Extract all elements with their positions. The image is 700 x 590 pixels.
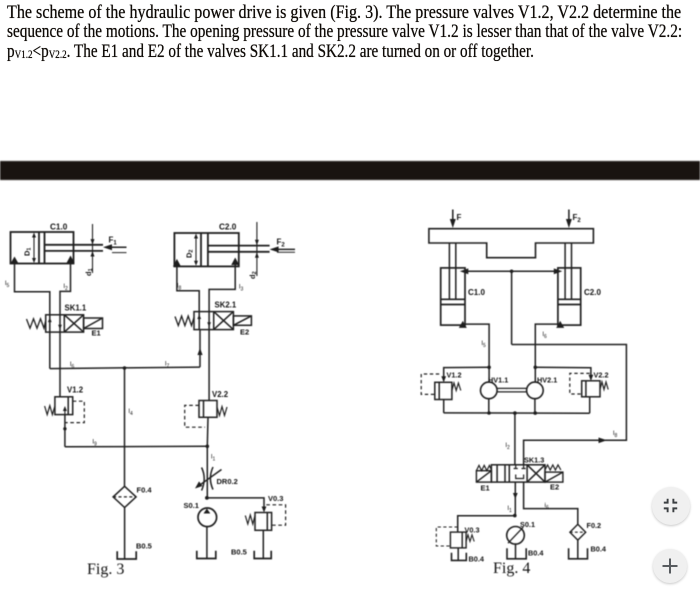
wire filter to tank [124, 508, 126, 559]
tank B0.5 filter [117, 551, 136, 559]
svg-text:l2: l2 [64, 283, 68, 292]
svg-text:S0.1: S0.1 [184, 501, 199, 510]
force arrow F2 [270, 246, 295, 252]
wire V0.3 to tank [262, 530, 264, 558]
wire manifold to SK1.3 [514, 413, 516, 465]
wire SK1.1 to V1.2 [59, 332, 61, 397]
node beam junction [510, 270, 514, 274]
svg-text:E1: E1 [92, 329, 101, 338]
wire junction to V0.3 fig4 [458, 516, 515, 532]
port arrow left C2.0 [173, 259, 181, 267]
wire C2.0 right port to SK2.1 [209, 265, 235, 312]
svg-text:HV1.1: HV1.1 [488, 376, 508, 385]
dimension d1 [91, 224, 95, 273]
solenoid E1 [84, 318, 103, 329]
throttle DR0.2 [195, 467, 222, 491]
flow arrow V1.2 [64, 409, 66, 415]
pilot V2.2 fig4 [570, 373, 590, 394]
wire V1.2 down [64, 415, 66, 447]
svg-text:d1: d1 [84, 268, 94, 276]
pilot V0.3 fig4 [436, 527, 457, 546]
cylinder C1.0 fig4 [441, 268, 465, 325]
filter F0.4 [113, 486, 136, 507]
svg-text:l7: l7 [165, 361, 169, 370]
dimension D2 [194, 234, 198, 266]
svg-text:S0.1: S0.1 [520, 520, 535, 529]
svg-text:V2.2: V2.2 [594, 371, 609, 380]
svg-text:d2: d2 [248, 271, 258, 279]
wire pump to tank [206, 527, 208, 559]
svg-text:l1: l1 [211, 454, 215, 463]
wire SK1.1 to manifold [49, 332, 51, 369]
svg-text:D1: D1 [23, 248, 33, 256]
wire SK2.1 to V2.2 [208, 330, 210, 401]
node HV2.1 top junction [534, 366, 538, 370]
solenoid E2 fig4 [545, 472, 563, 482]
force F left [450, 210, 456, 229]
spring SK1.3 right [545, 465, 561, 470]
wire pump to tank fig4 [515, 544, 517, 558]
svg-text:l8: l8 [613, 430, 617, 439]
wire V1.2 fig4 down [443, 400, 445, 413]
tank B0.4 pump [507, 548, 526, 559]
svg-text:V0.3: V0.3 [465, 526, 480, 535]
svg-text:l5: l5 [482, 340, 486, 349]
wire bottom manifold fig4 [444, 412, 590, 414]
node dots manifold [487, 411, 491, 415]
spring V2.2 [217, 407, 227, 416]
svg-text:DR0.2: DR0.2 [217, 477, 238, 486]
svg-text:F2: F2 [573, 213, 582, 224]
cylinder C2.0 [174, 233, 269, 266]
svg-text:V1.2: V1.2 [67, 386, 84, 395]
svg-text:HV2.1: HV2.1 [537, 376, 557, 385]
wire up-arrow to SK2.1 [199, 330, 201, 368]
svg-text:SK2.1: SK2.1 [215, 301, 237, 310]
wire center down [511, 271, 513, 344]
motor HV1.1 [481, 382, 498, 399]
wire manifold down to filter [124, 368, 126, 486]
pilot line V0.3 [266, 505, 285, 525]
svg-text:E2: E2 [550, 483, 559, 492]
svg-text:Fig. 4: Fig. 4 [493, 560, 530, 577]
cylinder C1.0 [11, 232, 104, 264]
wire C2.0 to HV2.1 [535, 324, 558, 382]
svg-text:C2.0: C2.0 [219, 223, 237, 232]
dimension D1 [32, 233, 36, 264]
svg-text:i6: i6 [545, 502, 549, 511]
piston rod right [565, 243, 571, 299]
svg-text:l6: l6 [543, 331, 547, 340]
spring V1.2 fig4 [452, 383, 461, 391]
port arrow right C1.0 [67, 256, 75, 264]
filter F0.2 [570, 524, 586, 540]
solenoid E1 fig4 [476, 471, 491, 482]
wire C1.0 left port to SK1.1 [15, 264, 50, 315]
valve V0.3 fig4 [450, 532, 466, 548]
valve V2.2 fig4 [582, 381, 600, 397]
svg-text:V2.2: V2.2 [212, 390, 229, 399]
solenoid E2 [233, 316, 251, 325]
wire SK1.3 to pump [514, 482, 516, 515]
node junction l4 [123, 366, 127, 370]
tank B0.4 filter [569, 548, 588, 559]
svg-text:F0.2: F0.2 [587, 521, 602, 530]
wire HV2.1 bottom [534, 399, 536, 413]
svg-text:V1.2: V1.2 [447, 371, 462, 380]
tank B0.5 pump [197, 551, 216, 559]
wire C1.0 right port to SK1.1 [60, 264, 71, 315]
svg-text:F: F [457, 213, 462, 222]
wire l9 [65, 445, 207, 448]
button fullscreen-exit [652, 487, 690, 525]
svg-text:l4: l4 [129, 408, 133, 417]
button plus [653, 549, 687, 583]
wire rod-side link [462, 270, 561, 272]
divider bar [0, 161, 700, 180]
wire V0.3 fig4 to tank [457, 548, 459, 560]
node junction pump fig4 [513, 514, 517, 518]
svg-text:Fig. 3: Fig. 3 [87, 561, 124, 578]
valve SK2.1 [194, 312, 233, 330]
svg-text:C1.0: C1.0 [50, 223, 68, 232]
port arrow C2.0 fig4 [556, 321, 564, 328]
svg-text:V0.3: V0.3 [268, 494, 283, 503]
svg-text:B0.4: B0.4 [469, 555, 485, 564]
svg-text:l8: l8 [177, 283, 181, 292]
tank V0.3 [254, 551, 271, 559]
force F2 right [566, 210, 572, 229]
wire C2.0 left port to SK2.1 [177, 266, 199, 311]
valve SK1.3 [491, 465, 545, 482]
svg-text:E2: E2 [240, 328, 249, 337]
svg-text:B0.5: B0.5 [231, 548, 247, 557]
svg-text:B0.5: B0.5 [136, 542, 152, 551]
wire filter to tank fig4 [577, 540, 579, 558]
svg-text:D2: D2 [185, 250, 195, 258]
svg-text:l9: l9 [93, 439, 97, 448]
pilot line V2.2 [185, 405, 205, 427]
svg-text:B0.4: B0.4 [528, 549, 544, 558]
wire to V2.2 fig4 [535, 367, 591, 379]
svg-text:C2.0: C2.0 [584, 288, 601, 297]
spring V1.2 [45, 406, 55, 415]
wire to V1.2 fig4 [444, 367, 489, 381]
node junction pump [205, 496, 209, 500]
spring SK1.1 [27, 319, 46, 328]
svg-text:l6: l6 [70, 361, 74, 370]
force arrow F1 [103, 244, 127, 252]
press beam [429, 229, 594, 258]
svg-text:B0.4: B0.4 [591, 545, 607, 554]
wire right loop [512, 345, 627, 465]
svg-text:E1: E1 [481, 484, 490, 493]
node junction l9/V2.2 [206, 445, 210, 449]
spring V0.3 fig4 [466, 535, 474, 542]
port arrow left C1.0 [11, 257, 19, 264]
svg-text:F0.4: F0.4 [137, 486, 153, 495]
spring SK2.1 [175, 316, 194, 326]
svg-text:C1.0: C1.0 [468, 288, 485, 297]
shaft link [497, 388, 526, 392]
port arrow right C2.0 [231, 258, 239, 266]
wire SK1.3 to filter [524, 482, 578, 524]
node dot below V1.2 [63, 427, 66, 430]
piston rod left [449, 243, 455, 299]
motor HV2.1 [527, 382, 544, 399]
svg-text:l2: l2 [506, 442, 510, 451]
wire V2.2 down to pump [206, 417, 209, 498]
wire HV1.1 bottom [488, 399, 490, 413]
valve V0.3 [255, 513, 272, 531]
valve V2.2 [199, 401, 217, 418]
valve SK1.1 [46, 315, 84, 332]
svg-text:F1: F1 [109, 236, 118, 247]
node HV1.1 top junction [487, 366, 491, 370]
pilot V1.2 fig4 [421, 374, 439, 394]
spring V2.2 fig4 [600, 382, 608, 390]
pilot line V1.2 [65, 401, 84, 422]
tank B0.4 V0.3 [452, 553, 467, 561]
valve V1.2 fig4 [435, 382, 452, 399]
svg-text:l5: l5 [5, 280, 9, 289]
cylinder C2.0 fig4 [558, 268, 581, 325]
svg-text:l1: l1 [508, 505, 512, 514]
pump S0.1 [198, 508, 217, 527]
spring SK1.3 left [476, 465, 491, 470]
svg-text:SK1.1: SK1.1 [65, 304, 87, 313]
port arrow C1.0 fig4 [459, 321, 467, 328]
pump S0.1 fig4 [507, 527, 525, 545]
wire V2.2 fig4 down [589, 397, 591, 413]
wire junction to V0.3 [207, 498, 264, 509]
wire manifold l6-l7 [50, 367, 200, 369]
dimension d2 [255, 222, 259, 276]
valve V1.2 [55, 397, 73, 415]
svg-text:l3: l3 [239, 284, 243, 293]
wire C1.0 to HV1.1 [465, 324, 489, 382]
spring V0.3 [245, 515, 255, 524]
svg-text:SK1.3: SK1.3 [524, 456, 544, 465]
